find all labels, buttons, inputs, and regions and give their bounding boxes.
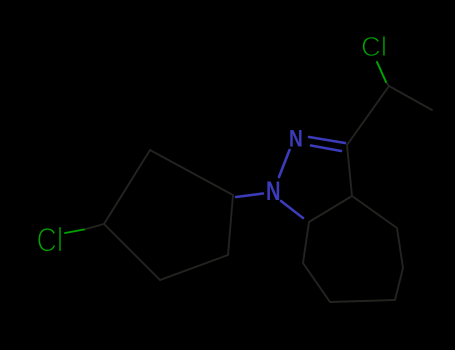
svg-text:Cl: Cl (361, 31, 387, 62)
svg-text:N: N (266, 176, 281, 205)
svg-text:Cl: Cl (37, 221, 64, 259)
svg-text:N: N (289, 124, 303, 152)
